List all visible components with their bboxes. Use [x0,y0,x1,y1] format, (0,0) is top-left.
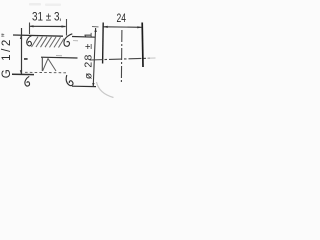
bottom surface line right y86 [72,85,96,87]
break curl bottom-right [66,75,73,86]
svg-text:G 1/2”: G 1/2” [1,31,13,79]
arrowhead up ø28 [94,28,96,32]
arrowhead down ø28 [92,83,94,87]
horizontal center line [90,58,151,60]
arrowhead left of 24 [103,26,108,28]
body right edge x142 [141,23,144,68]
ø28 dimension line vertical [93,28,95,87]
G 1/2" vertical dimension line [21,28,23,74]
faint mark right of band [73,40,78,42]
probe shoulder line y57 [41,56,78,59]
extension line left x29 [29,23,31,35]
scan speck left of shoulder [24,58,28,60]
wall top surface line (right segment) [72,36,96,39]
center line faint tail [147,57,156,59]
faint double-dash above shoulder [56,55,62,57]
extension line right x66 [66,19,68,36]
arrowhead right of 24 [137,26,142,28]
cone light path [43,59,56,71]
break curl top-right [64,34,72,46]
arrowhead left of 31±3 [29,25,34,27]
scan artifact arc bottom [97,82,114,98]
probe left edge x42 [41,57,43,71]
arrowhead up at y35 [20,35,22,39]
vertical center line [120,30,123,82]
dimension line 31±3 [29,25,65,27]
body left edge x103 [102,23,105,64]
hatching of wall section [32,37,65,48]
break curl top-left [27,36,32,46]
svg-text:ø 28 ± 1: ø 28 ± 1 [83,31,95,79]
break curl bottom-left [25,76,30,86]
dimension line 24 [104,26,142,29]
svg-text:24: 24 [117,11,127,25]
arrowhead right of 31±3 [62,25,67,27]
svg-text:31 ± 3: 31 ± 3 [32,10,60,24]
faint scan smudge top [29,3,41,6]
extension tick y27 [92,26,99,28]
hidden dashed line y72 [25,71,66,74]
wall top surface line (left segment incl. G leader tick) [13,35,63,36]
arrowhead down at y74 [20,70,22,74]
bottom surface line left y74 [12,73,34,75]
comma artifact after 3 [59,19,62,22]
